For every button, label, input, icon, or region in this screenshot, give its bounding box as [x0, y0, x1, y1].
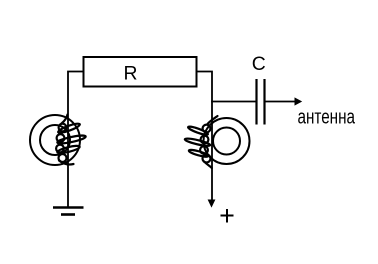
svg-text:R: R [124, 64, 138, 85]
wire resistor left lead [68, 72, 84, 208]
wire resistor right lead [197, 72, 213, 201]
inductor L2 toroid core [204, 118, 250, 164]
wire to capacitor [211, 101, 256, 103]
svg-text:C: C [252, 54, 266, 75]
down arrow (+ supply) [208, 200, 216, 208]
svg-text:антенна: антенна [298, 107, 356, 129]
inductor L1 toroid core [30, 115, 80, 165]
inductor L1 winding [56, 115, 86, 165]
antenna arrowhead [295, 97, 303, 105]
capacitor C plates [255, 79, 257, 125]
inductor L2 winding [184, 116, 217, 168]
label + [221, 209, 234, 223]
resistor R [84, 57, 197, 87]
ground [53, 206, 84, 209]
wire capacitor to arrow [266, 101, 296, 103]
